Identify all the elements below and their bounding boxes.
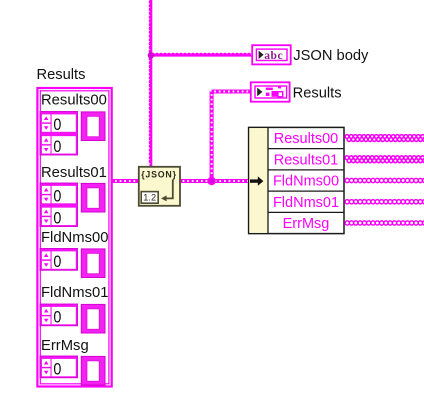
svg-text:Results: Results: [37, 67, 86, 83]
svg-text:ErrMsg: ErrMsg: [283, 216, 330, 232]
svg-text:Results: Results: [293, 85, 342, 101]
svg-text:JSON body: JSON body: [293, 48, 369, 64]
svg-text:0: 0: [53, 187, 61, 206]
svg-text:abc: abc: [264, 50, 283, 62]
svg-text:Results01: Results01: [41, 165, 107, 181]
svg-text:ErrMsg: ErrMsg: [41, 338, 89, 354]
svg-text:0: 0: [53, 115, 61, 134]
svg-text:0: 0: [53, 252, 61, 271]
svg-text:FldNms00: FldNms00: [273, 174, 339, 190]
svg-text:1.2: 1.2: [143, 193, 156, 203]
svg-text:{JSON}: {JSON}: [141, 170, 177, 180]
svg-text:FldNms01: FldNms01: [273, 195, 339, 211]
svg-text:0: 0: [53, 360, 61, 379]
svg-text:FldNms00: FldNms00: [41, 230, 108, 246]
svg-text:Results00: Results00: [274, 131, 338, 147]
svg-text:0: 0: [53, 308, 61, 327]
svg-text:0: 0: [53, 137, 61, 156]
svg-text:Results01: Results01: [274, 152, 338, 168]
svg-text:FldNms01: FldNms01: [41, 285, 108, 301]
svg-text:Results00: Results00: [41, 92, 107, 108]
svg-text:0: 0: [53, 208, 61, 227]
